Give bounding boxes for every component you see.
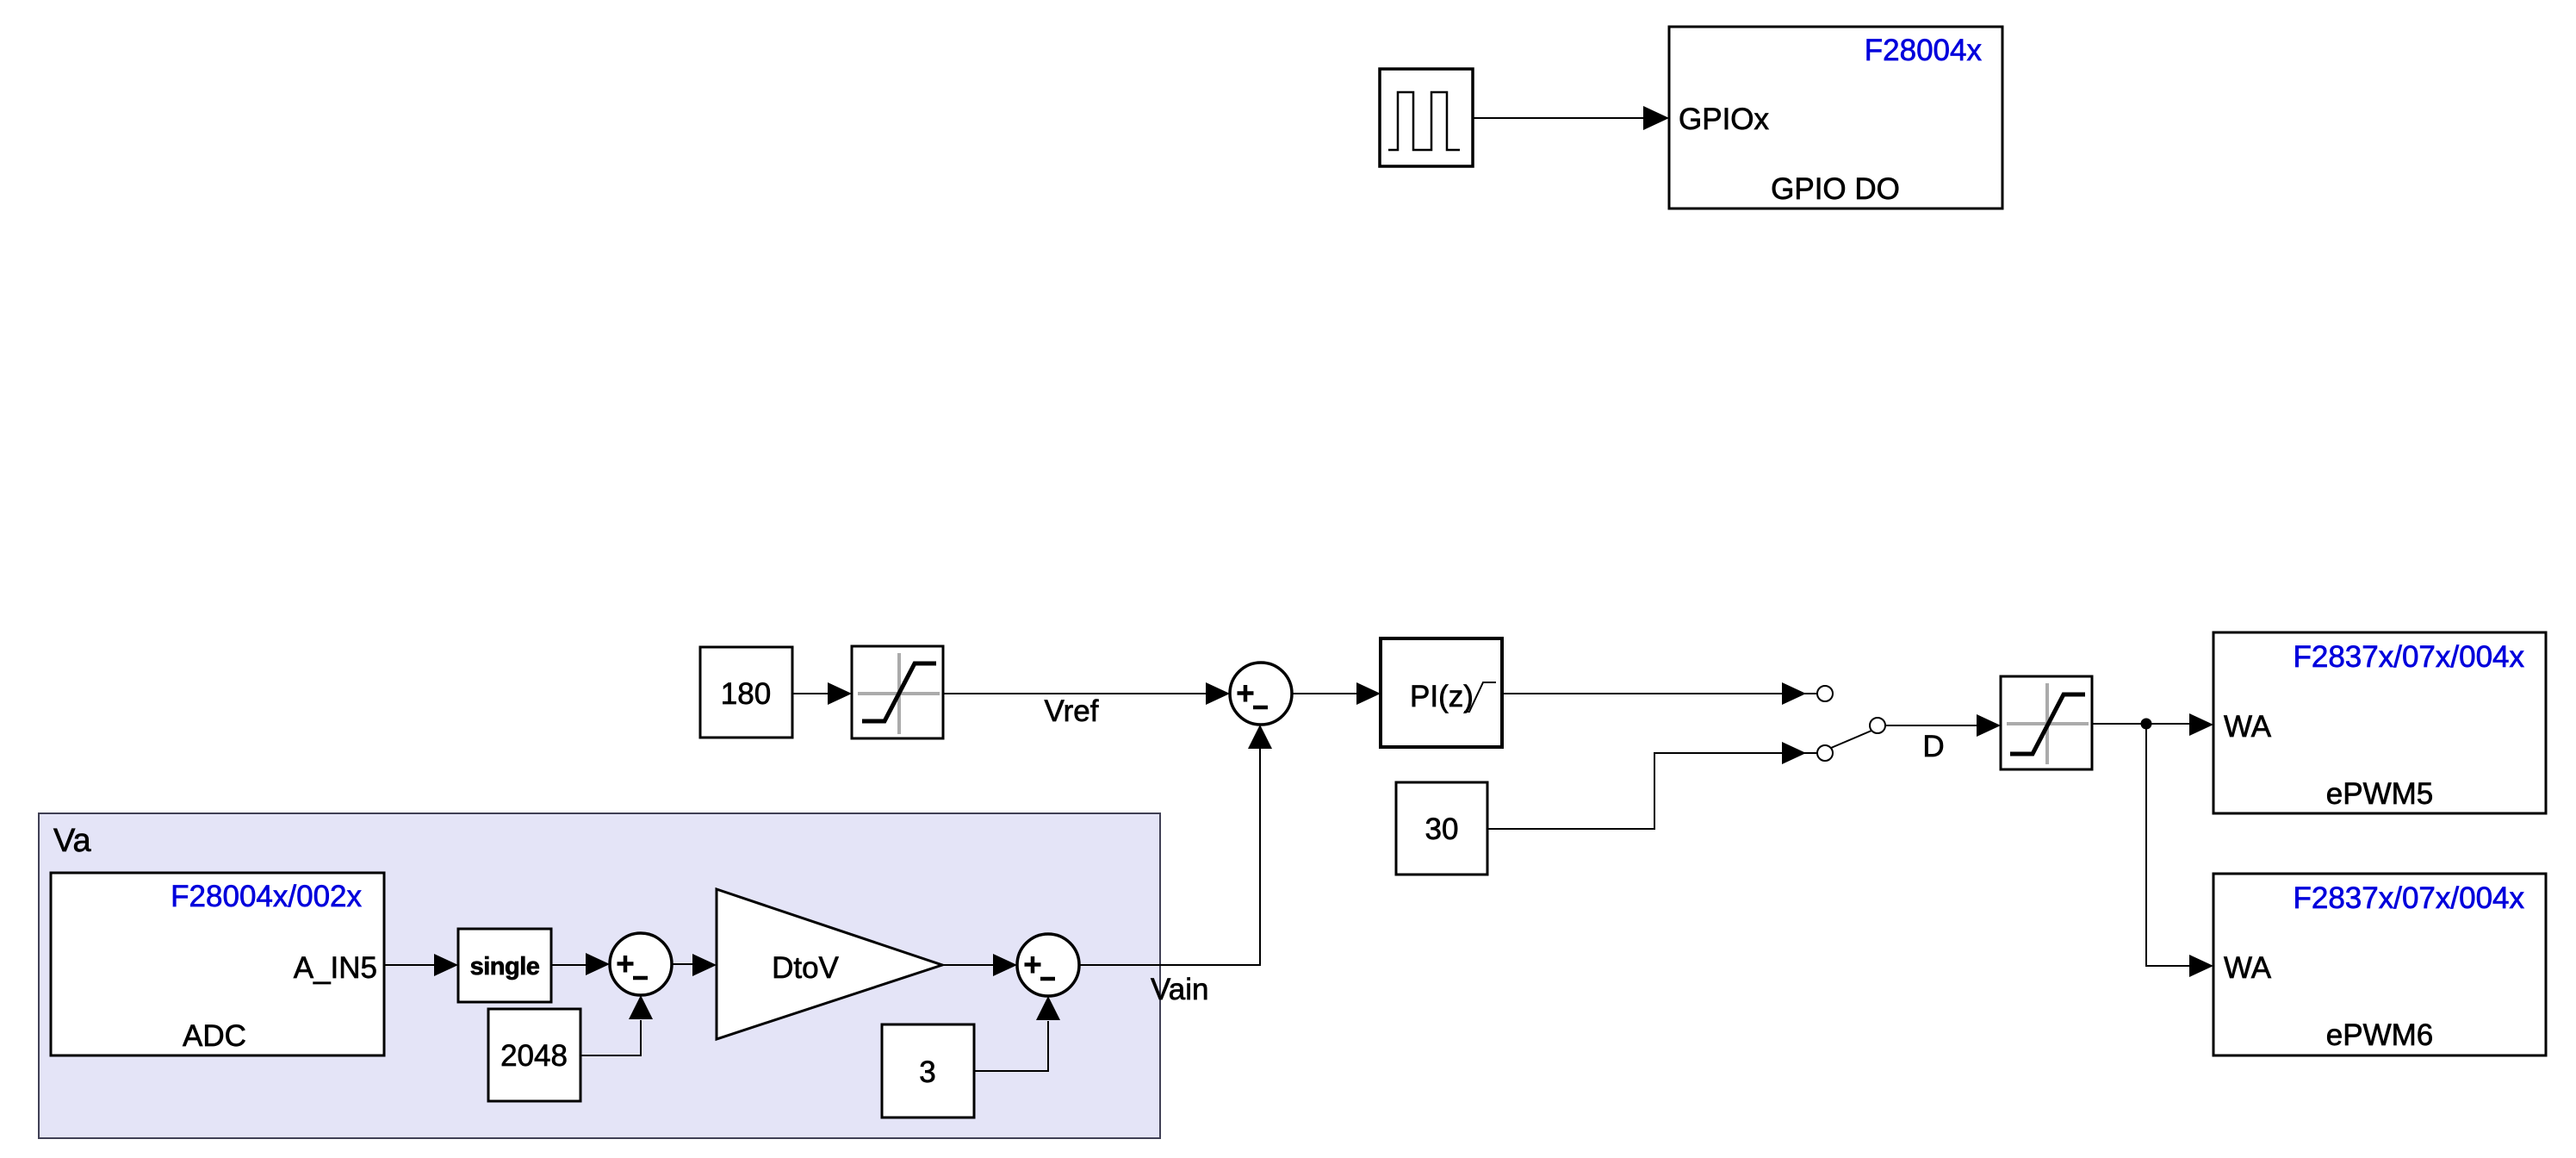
wire switch to saturation2, net D	[1885, 725, 1978, 726]
arrowhead into sum2 bottom	[629, 995, 653, 1019]
wire junction down to ePWM6	[2146, 724, 2190, 966]
svg-text:DtoV: DtoV	[772, 951, 839, 985]
arrowhead at switch lower throw	[1782, 742, 1806, 764]
manual switch lever	[1831, 731, 1871, 748]
manual switch lower contact	[1817, 745, 1833, 761]
svg-text:A_IN5: A_IN5	[294, 951, 377, 985]
wire 2048 to sum2 bottom	[580, 1020, 641, 1055]
arrowhead into sum3	[993, 954, 1017, 976]
block ePWM6 (F2837x/07x/004x)	[2213, 874, 2546, 1055]
svg-text:D: D	[1922, 730, 1944, 763]
pulse generator block	[1380, 69, 1473, 166]
svg-text:30: 30	[1425, 812, 1459, 846]
arrowhead into ePWM5 WA	[2189, 713, 2213, 736]
arrowhead into DtoV	[692, 954, 717, 976]
arrowhead into sum1	[1206, 682, 1230, 705]
svg-text:single: single	[470, 953, 540, 981]
arrowhead at switch upper throw	[1782, 682, 1806, 705]
wire saturation1 to sum1, net Vref	[943, 693, 1206, 694]
arrowhead into ePWM6 WA	[2189, 955, 2213, 977]
constant 2048	[488, 1009, 580, 1101]
svg-text:GPIOx: GPIOx	[1679, 103, 1770, 136]
pulse generator icon	[1388, 92, 1460, 150]
arrowhead into PI(z)	[1356, 682, 1381, 705]
svg-text:2048: 2048	[500, 1039, 568, 1073]
svg-text:ADC: ADC	[183, 1019, 246, 1053]
subsystem area Va (lavender region)	[39, 813, 1160, 1138]
wire saturation2 to ePWM5	[2092, 723, 2190, 725]
svg-text:F2837x/07x/004x: F2837x/07x/004x	[2293, 881, 2524, 915]
block GPIO DO (F28004x)	[1669, 27, 2002, 209]
arrowhead into GPIOx port	[1643, 106, 1669, 130]
arrowhead into sum3 bottom	[1036, 996, 1060, 1020]
svg-text:Va: Va	[53, 823, 92, 859]
arrowhead into sum2	[586, 953, 610, 975]
svg-text:ePWM5: ePWM5	[2326, 777, 2433, 811]
sum block 2 (+ -)	[610, 933, 672, 995]
arrowhead into single	[434, 954, 458, 976]
svg-text:F2837x/07x/004x: F2837x/07x/004x	[2293, 640, 2524, 674]
saturation block 2	[2001, 676, 2092, 769]
manual switch upper contact	[1817, 686, 1833, 701]
gain block DtoV	[717, 889, 942, 1039]
sum block 3 (+ -)	[1017, 934, 1079, 996]
wire sum3 to sum1, net Vain	[1079, 749, 1260, 965]
wire 180 to saturation1	[792, 693, 829, 694]
constant 30	[1396, 782, 1487, 875]
wire sum1 to PI(z)	[1292, 693, 1358, 694]
saturation block 1	[852, 646, 943, 738]
svg-text:F28004x/002x: F28004x/002x	[171, 880, 362, 913]
wire 3 to sum3 bottom	[974, 1021, 1048, 1071]
arrowhead Vain into sum1 bottom	[1248, 725, 1272, 749]
wire sum2 to DtoV	[672, 963, 693, 965]
constant 180	[700, 647, 792, 738]
arrowhead into saturation1	[828, 682, 852, 705]
manual switch pole contact	[1870, 718, 1885, 733]
junction node	[2141, 719, 2152, 730]
svg-text:3: 3	[919, 1055, 935, 1089]
arrowhead into saturation2	[1977, 714, 2001, 737]
sum block 1 (+ -)	[1230, 663, 1292, 725]
svg-text:180: 180	[721, 677, 771, 711]
block ADC (F28004x/002x)	[51, 873, 384, 1055]
svg-text:PI(z): PI(z)	[1410, 680, 1474, 713]
wire PI(z) to switch upper throw	[1502, 693, 1817, 694]
wire single to sum2	[551, 964, 587, 966]
svg-text:ePWM6: ePWM6	[2326, 1018, 2433, 1052]
svg-text:Vain: Vain	[1151, 973, 1208, 1006]
block PI(z) controller	[1381, 638, 1502, 747]
svg-text:WA: WA	[2224, 951, 2272, 985]
wire pulse generator to GPIO DO	[1473, 117, 1645, 119]
svg-text:Vref: Vref	[1045, 694, 1099, 728]
svg-text:GPIO DO: GPIO DO	[1771, 172, 1900, 206]
constant 3	[882, 1024, 974, 1118]
wire 30 to switch lower throw	[1487, 753, 1817, 829]
data type conversion block single	[458, 929, 551, 1002]
wire DtoV to sum3	[942, 964, 995, 966]
svg-text:WA: WA	[2224, 710, 2272, 744]
wire ADC to single	[384, 964, 435, 966]
svg-text:F28004x: F28004x	[1865, 34, 1983, 67]
block ePWM5 (F2837x/07x/004x)	[2213, 632, 2546, 813]
